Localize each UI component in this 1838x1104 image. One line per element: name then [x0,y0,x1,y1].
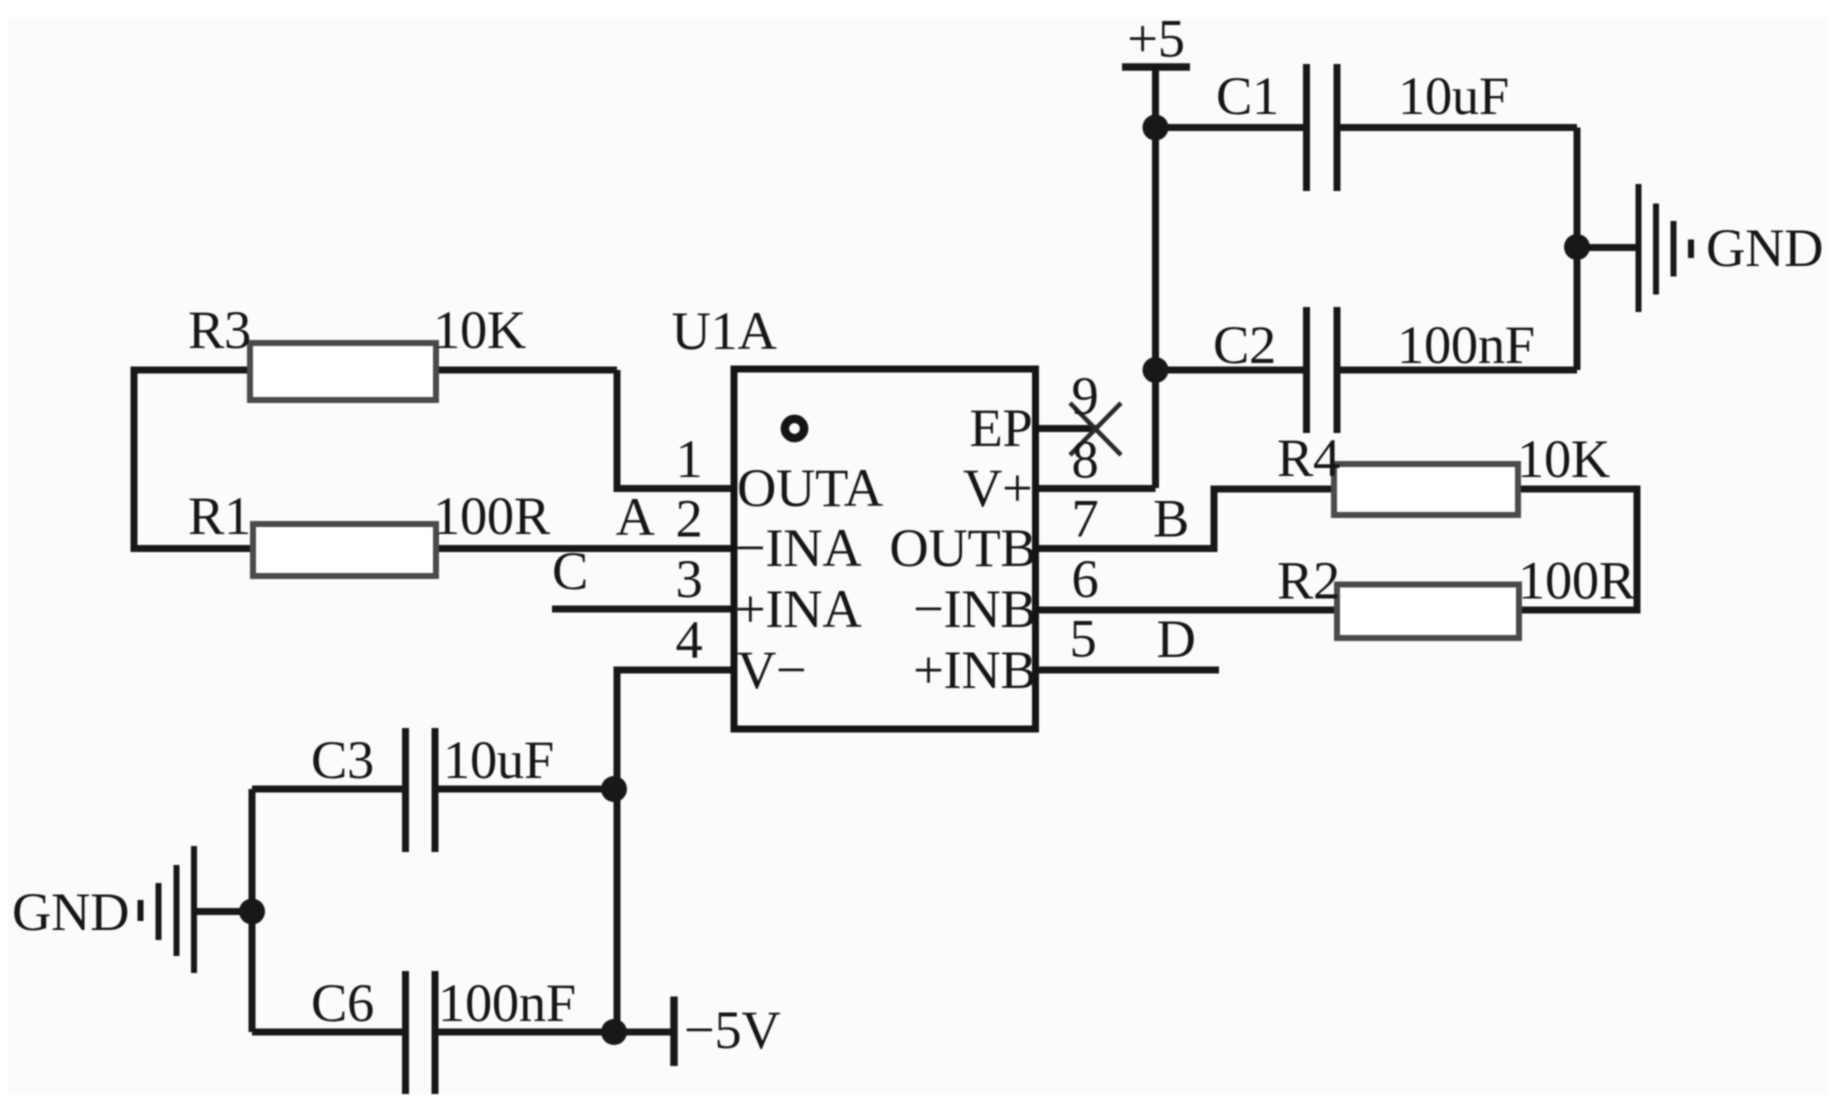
svg-text:9: 9 [1072,365,1099,426]
svg-text:2: 2 [676,488,703,549]
svg-text:10uF: 10uF [1398,65,1509,126]
svg-text:C2: C2 [1213,314,1276,375]
svg-text:−INB: −INB [913,578,1036,639]
svg-text:B: B [1153,488,1189,549]
svg-text:6: 6 [1072,548,1099,609]
svg-text:V−: V− [737,639,807,700]
svg-text:R3: R3 [188,299,251,360]
svg-text:D: D [1156,608,1195,669]
svg-text:C3: C3 [311,729,374,790]
svg-text:C6: C6 [311,972,374,1033]
svg-text:100nF: 100nF [438,972,576,1033]
svg-text:+INB: +INB [913,639,1036,700]
svg-text:10K: 10K [1517,428,1610,489]
svg-text:10uF: 10uF [443,729,554,790]
svg-text:C1: C1 [1216,65,1279,126]
svg-text:U1A: U1A [671,300,776,361]
svg-text:R1: R1 [188,485,251,546]
svg-text:EP: EP [969,397,1032,458]
svg-text:OUTB: OUTB [889,517,1036,578]
svg-text:100R: 100R [1518,550,1636,611]
svg-text:100nF: 100nF [1397,314,1535,375]
svg-text:A: A [615,486,654,547]
svg-text:C: C [552,540,588,601]
svg-text:4: 4 [676,609,703,670]
svg-text:3: 3 [676,548,703,609]
svg-text:100R: 100R [433,485,551,546]
svg-text:10K: 10K [433,299,526,360]
svg-text:1: 1 [676,428,703,489]
svg-text:OUTA: OUTA [737,457,883,518]
svg-text:7: 7 [1072,488,1099,549]
svg-text:R4: R4 [1277,427,1340,488]
svg-text:V+: V+ [963,457,1033,518]
svg-text:GND: GND [1706,217,1823,278]
svg-text:8: 8 [1072,429,1099,490]
svg-text:+INA: +INA [735,578,861,639]
svg-text:+5: +5 [1127,8,1184,69]
svg-text:R2: R2 [1277,550,1340,611]
svg-text:−5V: −5V [684,999,780,1060]
svg-text:GND: GND [12,881,129,942]
svg-text:5: 5 [1070,608,1097,669]
svg-text:−INA: −INA [735,517,861,578]
